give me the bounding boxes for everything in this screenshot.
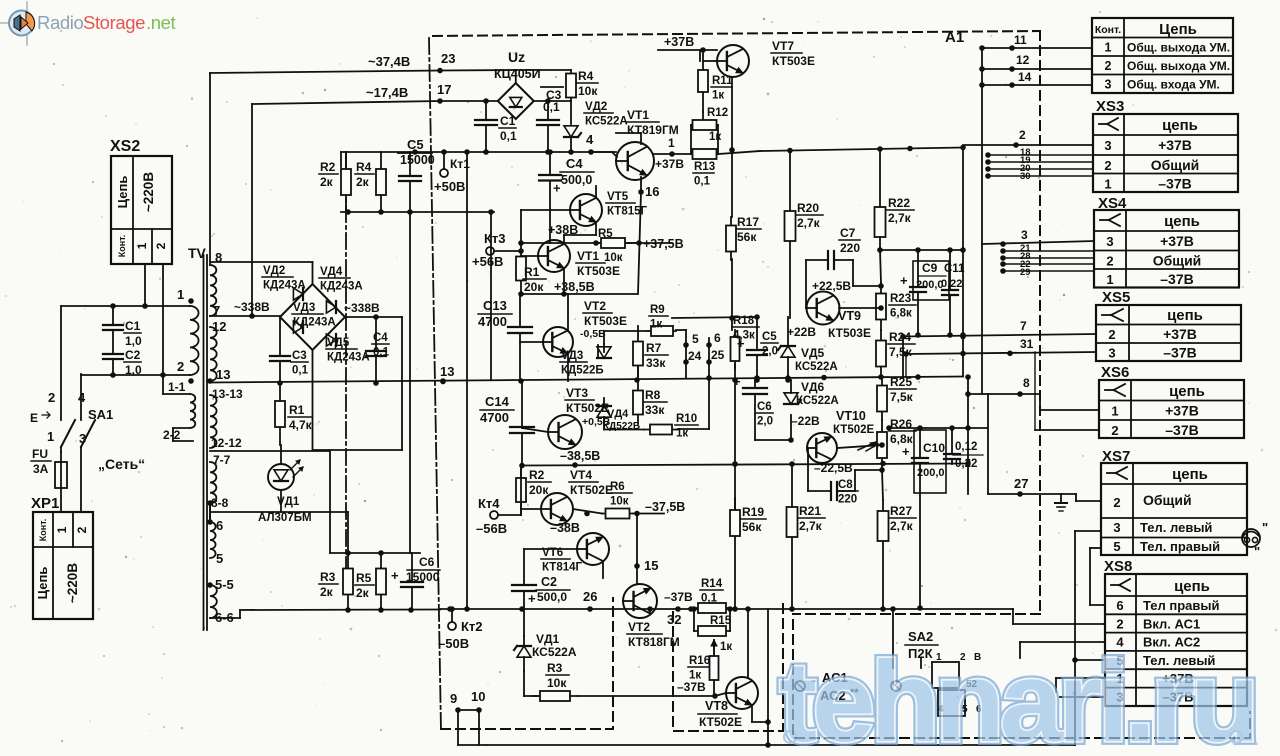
resistor R6 10k	[602, 513, 633, 515]
wire VT7 emitter	[731, 77, 733, 217]
svg-text:15000: 15000	[400, 153, 435, 167]
wire VT1s base	[521, 255, 538, 257]
XS3 header	[1099, 123, 1107, 125]
wire tel left down	[1074, 531, 1076, 660]
svg-text:+: +	[733, 374, 741, 389]
capacitor C6 2,0	[743, 387, 767, 389]
svg-text:12-12: 12-12	[211, 436, 242, 450]
svg-text:Цепь: Цепь	[35, 567, 50, 600]
wire xs8 tel levyj	[1075, 659, 1105, 661]
wire y250 bus	[880, 249, 963, 251]
svg-text:С10: С10	[923, 441, 945, 455]
XS4 header	[1100, 219, 1109, 221]
svg-text:56к: 56к	[742, 520, 762, 534]
XS8 header	[1111, 584, 1119, 586]
fuse FU 3A	[60, 452, 62, 462]
svg-text:3: 3	[1106, 234, 1113, 249]
dashed box speakers	[793, 620, 1250, 738]
wire VT8 collector	[747, 609, 749, 677]
wire right vertical bus	[981, 48, 983, 394]
RadioStorage.net logo crosshair	[0, 22, 15, 24]
resistor R27 2,7k	[882, 500, 884, 608]
svg-text:~338В: ~338В	[234, 300, 270, 314]
svg-text:КД243А: КД243А	[327, 352, 370, 364]
svg-text:0,1: 0,1	[543, 100, 560, 114]
RadioStorage.net logo icon	[9, 11, 34, 36]
wire jumper 6-25	[708, 338, 710, 429]
transformer secondary winding 7-8	[210, 462, 216, 503]
svg-text:2: 2	[1113, 495, 1120, 510]
svg-text:ХР1: ХР1	[31, 495, 59, 512]
capacitor C2 500,0	[512, 584, 536, 586]
svg-text:Конт.: Конт.	[38, 519, 48, 542]
wire R11 junction	[702, 112, 704, 125]
svg-text:С13: С13	[483, 298, 507, 313]
svg-text:R11: R11	[712, 75, 733, 87]
resistor R18 4,3k	[734, 330, 736, 368]
resistor R7 33k	[637, 326, 639, 381]
svg-text:1к: 1к	[720, 641, 732, 653]
wire Uz left	[440, 100, 498, 102]
svg-text:2к: 2к	[320, 585, 334, 599]
wire pin20	[988, 168, 1093, 170]
wire R12R13 left	[690, 125, 692, 154]
svg-text:10к: 10к	[547, 676, 567, 690]
transformer primary winding 1-2	[190, 306, 199, 375]
svg-text:10: 10	[471, 689, 485, 704]
svg-text:Общий: Общий	[1151, 157, 1200, 173]
wire psu aux vertical	[490, 212, 492, 380]
diode VD5 KS522A	[781, 346, 795, 357]
wire bridge top	[312, 262, 314, 284]
svg-text:Конт.: Конт.	[117, 235, 127, 258]
dashed box output stage right	[782, 604, 784, 731]
svg-text:R10: R10	[676, 413, 697, 425]
resistor R11 1k	[702, 50, 704, 112]
svg-text:12: 12	[212, 319, 226, 334]
svg-text:VТ1: VТ1	[577, 249, 599, 263]
svg-text:КТ814Г: КТ814Г	[542, 562, 583, 574]
svg-text:+37В: +37В	[1160, 233, 1194, 249]
resistor R23 6,8k	[880, 283, 882, 330]
capacitor C1 1,0	[103, 324, 123, 326]
svg-text:–38В: –38В	[550, 521, 580, 535]
svg-text:КТ503Е: КТ503Е	[828, 326, 871, 340]
wire VT7 base	[699, 50, 701, 61]
svg-text:–22,5В: –22,5В	[814, 461, 853, 475]
wire SA2 stem	[920, 658, 922, 668]
svg-text:Кт1: Кт1	[450, 157, 470, 171]
wire R13 to bus	[718, 151, 760, 154]
capacitor C11 0,22	[942, 289, 958, 291]
wire pin21	[1003, 250, 1094, 252]
wire Uz right	[534, 100, 571, 102]
svg-text:0,12: 0,12	[955, 441, 977, 453]
svg-text:Общий: Общий	[1153, 253, 1202, 269]
svg-text:VТ1: VТ1	[627, 108, 649, 122]
transistor VT7	[717, 45, 749, 77]
svg-text:2: 2	[75, 526, 89, 533]
resistor R2 2k psu	[345, 152, 347, 212]
wire R9 left	[604, 330, 648, 332]
svg-text:Цепь: Цепь	[115, 176, 130, 209]
svg-text:33к: 33к	[646, 356, 666, 370]
wire VT8 emitter	[751, 707, 753, 722]
svg-text:С7: С7	[840, 226, 856, 240]
svg-text:+37,5В: +37,5В	[643, 237, 684, 251]
wire R15 arrow 1k	[713, 640, 715, 654]
capacitor C1 0,1 Uz	[475, 119, 497, 121]
svg-text:КС522А: КС522А	[795, 361, 838, 373]
wire node15 down	[636, 566, 638, 584]
wire bridge bottom	[312, 350, 314, 450]
svg-text:R2: R2	[320, 160, 336, 174]
wire tap7 bridge	[210, 315, 280, 317]
wire R26-R27 link	[882, 470, 883, 500]
svg-text:цепь: цепь	[1167, 307, 1203, 324]
svg-text:С6: С6	[419, 555, 435, 569]
wire main top bus	[760, 148, 963, 152]
svg-text:2,7к: 2,7к	[890, 519, 914, 533]
resistor R3 10k bottom	[532, 695, 578, 697]
transformer secondary winding 12-13	[210, 327, 217, 381]
wire bus 13	[210, 377, 963, 383]
transistor VT10	[807, 433, 837, 463]
resistor R24 7,5k	[880, 330, 882, 377]
wire Uz top	[515, 70, 517, 83]
capacitor C14 4700	[510, 426, 534, 428]
svg-text:VТ9: VТ9	[838, 309, 861, 323]
wire pin8 entry	[1039, 394, 1041, 410]
switch SA1	[61, 420, 75, 447]
svg-text:цепь: цепь	[1174, 578, 1210, 595]
svg-text:R19: R19	[742, 505, 764, 519]
svg-text:+37В: +37В	[655, 157, 684, 171]
svg-text:Тел. левый: Тел. левый	[1140, 520, 1212, 535]
capacitor C4 0,1 bridge	[366, 350, 386, 352]
svg-text:VТ8: VТ8	[705, 699, 728, 713]
svg-text:С1: С1	[500, 114, 516, 128]
svg-text:5: 5	[1113, 539, 1120, 554]
resistor R22 2,7k	[879, 149, 881, 250]
svg-text:56к: 56к	[737, 230, 757, 244]
svg-text:10к: 10к	[604, 252, 623, 264]
wire bottom bus	[440, 608, 1013, 610]
svg-text:26: 26	[583, 589, 597, 604]
wire R2R4 tops	[340, 152, 342, 167]
svg-text:4,7к: 4,7к	[289, 418, 313, 432]
svg-text:КТ502Е: КТ502Е	[833, 424, 875, 436]
svg-text:2: 2	[1019, 128, 1026, 142]
svg-text:200,0: 200,0	[916, 279, 944, 291]
svg-text:R17: R17	[737, 215, 759, 229]
svg-text:+: +	[902, 444, 910, 459]
wire top bus 37V-2	[252, 101, 440, 104]
svg-text:КД243А: КД243А	[263, 280, 306, 292]
svg-text:R21: R21	[799, 504, 821, 518]
svg-text:С5: С5	[762, 331, 777, 343]
svg-text:R4: R4	[356, 160, 372, 174]
svg-text:0,1: 0,1	[292, 365, 309, 377]
svg-text:5: 5	[692, 332, 699, 346]
testpoint Kt2	[448, 622, 456, 630]
svg-text:2: 2	[1104, 158, 1111, 173]
svg-text:Storage: Storage	[83, 12, 145, 33]
svg-text:2-2: 2-2	[163, 428, 181, 442]
resistor R3 2k	[347, 553, 349, 610]
svg-text:~17,4В: ~17,4В	[366, 85, 408, 100]
svg-text:1к: 1к	[712, 90, 724, 102]
svg-text:КД522Б: КД522Б	[561, 365, 604, 377]
svg-text:VД6: VД6	[801, 380, 825, 394]
svg-text:XS6: XS6	[1101, 364, 1129, 381]
wire bridge right	[345, 316, 402, 318]
wire mid junction	[520, 341, 542, 343]
transistor VT3	[548, 415, 582, 449]
wire VT2s	[567, 294, 569, 330]
svg-text:2: 2	[154, 242, 168, 249]
svg-text:КС522А: КС522А	[532, 645, 577, 659]
svg-text:КД243А: КД243А	[293, 317, 336, 329]
wire bottom right up	[1074, 660, 1076, 745]
svg-text:R1: R1	[524, 265, 540, 279]
svg-text:27: 27	[1014, 476, 1028, 491]
resistor R12 1k	[691, 124, 718, 126]
svg-text:+50В: +50В	[434, 179, 465, 194]
svg-text:23: 23	[441, 51, 455, 66]
dash-dot boundary transformer	[345, 152, 347, 594]
svg-text:3: 3	[1105, 78, 1112, 92]
resistor R8 33k	[637, 381, 639, 424]
svg-text:R7: R7	[646, 341, 662, 355]
svg-text:R15: R15	[710, 615, 732, 627]
transistor VT1 small	[538, 240, 570, 272]
svg-text:VТ3: VТ3	[566, 386, 588, 400]
speaker connector AC1	[795, 681, 805, 691]
wire R14R15 left	[693, 608, 695, 631]
svg-text:2: 2	[177, 359, 184, 374]
svg-text:1: 1	[135, 242, 149, 249]
transistor VT5	[570, 194, 602, 226]
svg-text:Конт.: Конт.	[1095, 24, 1121, 36]
wire xs8 vkl as1	[1013, 623, 1105, 625]
svg-text:11: 11	[1014, 33, 1027, 47]
wire node L2	[81, 374, 190, 376]
svg-text:С4: С4	[373, 332, 388, 344]
svg-text:R23: R23	[890, 293, 911, 305]
svg-text:7,5к: 7,5к	[890, 390, 914, 404]
wire pin7	[903, 334, 1096, 337]
wire 17V vertical	[251, 104, 253, 316]
wire xs6 minus	[1034, 352, 1036, 430]
svg-text:–37В: –37В	[1160, 271, 1193, 287]
wire VT1 base	[591, 151, 612, 153]
svg-text:КТ819ГМ: КТ819ГМ	[627, 123, 679, 137]
svg-text:R13: R13	[694, 161, 715, 173]
svg-text:0,1: 0,1	[701, 593, 718, 605]
wire VT5 base col	[520, 210, 522, 243]
svg-text:Тел правый: Тел правый	[1143, 598, 1220, 613]
svg-text:R12: R12	[707, 107, 728, 119]
wire xs8 vkl as2	[1020, 641, 1105, 643]
svg-text:220: 220	[838, 494, 857, 506]
svg-text:С3: С3	[292, 350, 307, 362]
wire pin19	[988, 161, 1093, 163]
wire pin30	[988, 175, 1093, 177]
testpoint Kt3	[486, 247, 494, 255]
capacitor C3 0,1 Uz	[537, 119, 559, 121]
wire 5-5 6-6 join	[210, 617, 240, 619]
svg-text:VД4: VД4	[607, 408, 629, 420]
resistor R20 2,7k	[789, 151, 791, 319]
capacitor C8 220	[830, 482, 832, 500]
XS7 header	[1107, 472, 1116, 474]
svg-text:+22В: +22В	[787, 325, 816, 339]
wire pin12	[982, 68, 1092, 70]
wire VT2b emitter	[649, 609, 651, 614]
svg-text:–50В: –50В	[438, 636, 469, 651]
svg-text:1: 1	[1106, 272, 1113, 287]
wire R10 right	[678, 428, 709, 430]
svg-text:0,22: 0,22	[941, 278, 962, 290]
diode VD6 KS522A	[784, 393, 798, 404]
transistor VT4	[541, 493, 573, 525]
svg-text:VТ7: VТ7	[772, 39, 794, 53]
svg-text:+56В: +56В	[472, 254, 503, 269]
svg-text:Е: Е	[30, 411, 38, 425]
wire 9-10	[455, 707, 461, 713]
svg-text:+: +	[737, 336, 745, 351]
wire tap8 up	[209, 73, 211, 265]
svg-text:7: 7	[1020, 319, 1027, 333]
svg-text:~338В: ~338В	[344, 301, 380, 315]
svg-text:200,0: 200,0	[917, 467, 945, 479]
svg-text:1: 1	[1105, 41, 1112, 55]
dashed box A1 right edge	[1039, 31, 1041, 614]
wire VT9 links	[839, 307, 881, 309]
connector XP1 box	[33, 512, 93, 619]
svg-text:КТ815Г: КТ815Г	[607, 206, 648, 218]
wire pin27	[988, 493, 1076, 495]
resistor R5 2k	[380, 553, 382, 610]
svg-text:VТ4: VТ4	[570, 468, 592, 482]
XS5 header	[1102, 314, 1111, 316]
svg-text:13-13: 13-13	[212, 387, 243, 401]
transistor VT6	[577, 533, 609, 565]
wire xs8 row3	[1060, 696, 1105, 698]
svg-text:Общ. выхода УМ.: Общ. выхода УМ.	[1127, 41, 1230, 55]
ground symbol	[1060, 494, 1062, 503]
wire R14R15 right	[729, 608, 731, 631]
svg-text:3: 3	[1021, 228, 1028, 242]
wire bus +50 main	[341, 151, 616, 153]
svg-text:Общий: Общий	[1143, 492, 1192, 508]
svg-text:4700: 4700	[478, 314, 507, 329]
resistor R21 2,7k	[791, 464, 793, 609]
wire VT5 emitter	[595, 222, 597, 235]
svg-text:цепь: цепь	[1162, 117, 1198, 134]
wire R17-R18 link	[731, 259, 733, 330]
svg-text:С4: С4	[566, 156, 583, 171]
wire bus psu mid	[341, 211, 494, 213]
svg-text:13: 13	[440, 364, 454, 379]
wire mid out bus dots	[754, 375, 760, 381]
svg-text:КД243А: КД243А	[320, 281, 363, 293]
svg-text:КС522А: КС522А	[585, 116, 628, 128]
svg-text:5: 5	[216, 551, 223, 566]
capacitor C7 220	[827, 251, 829, 269]
wire tel right	[1090, 547, 1101, 549]
resistor R2 20k amp	[520, 465, 522, 515]
svg-text:6: 6	[714, 331, 721, 345]
wire psu mid vertical	[466, 152, 468, 609]
wire pin22	[1003, 263, 1094, 265]
diode VD4 KD522	[597, 406, 611, 417]
capacitor C12 0,12/0,22	[944, 453, 960, 455]
svg-text:VТ2: VТ2	[584, 299, 606, 313]
wire xs7 common	[1075, 494, 1077, 501]
svg-text:-0,5В: -0,5В	[580, 328, 606, 340]
svg-text:15000: 15000	[406, 570, 440, 584]
svg-text:С6: С6	[757, 401, 772, 413]
svg-text:С1: С1	[125, 319, 141, 333]
dash-dot boundary power unit	[429, 38, 441, 731]
svg-text:цепь: цепь	[1164, 213, 1200, 230]
svg-text:2: 2	[1116, 616, 1123, 631]
wire very bottom	[458, 744, 1075, 746]
wire right column x963	[962, 148, 964, 377]
transformer secondary winding 8-7	[210, 265, 216, 316]
wire pin31 stub	[902, 337, 904, 378]
wire C7 loop	[805, 260, 807, 308]
svg-text:": "	[1262, 520, 1268, 535]
dashed box psu bottom	[441, 598, 613, 729]
svg-text:16: 16	[645, 184, 659, 199]
svg-text:VД3: VД3	[561, 350, 583, 362]
svg-text:–37В: –37В	[677, 680, 706, 694]
svg-text:–37В: –37В	[1165, 422, 1198, 438]
wire VT1s emitter	[563, 268, 565, 294]
wire VT10 links	[837, 445, 882, 448]
svg-text:VД5: VД5	[327, 337, 350, 349]
resistor R25 7,5k	[881, 377, 883, 420]
wire pin14	[982, 84, 1092, 86]
svg-text:VД5: VД5	[801, 346, 825, 360]
capacitor C9 200,0 box	[913, 261, 949, 300]
headphone icon	[1242, 529, 1260, 547]
svg-text:+37В: +37В	[1163, 326, 1197, 342]
svg-text:С2: С2	[541, 575, 557, 589]
dashed box A1 bottom right	[793, 613, 1040, 615]
wire pin2	[963, 144, 1093, 146]
svg-text:10к: 10к	[610, 496, 629, 508]
svg-text:R2: R2	[529, 468, 545, 482]
svg-text:2,0: 2,0	[757, 416, 773, 428]
wire pin8 src	[965, 391, 971, 397]
svg-text:~37,4В: ~37,4В	[368, 54, 410, 69]
svg-text:32: 32	[667, 612, 681, 627]
svg-text:1,0: 1,0	[125, 334, 142, 348]
svg-text:–37В: –37В	[1158, 176, 1191, 192]
svg-text:2: 2	[1106, 254, 1113, 269]
svg-text:tehnari.ru: tehnari.ru	[779, 639, 1255, 756]
wire R4 top	[516, 69, 571, 71]
svg-text:–56В: –56В	[476, 521, 507, 536]
svg-text:R20: R20	[797, 201, 819, 215]
svg-text:12: 12	[1016, 53, 1030, 67]
wire VT4 emitter	[573, 509, 602, 514]
resistor R15	[694, 630, 730, 632]
